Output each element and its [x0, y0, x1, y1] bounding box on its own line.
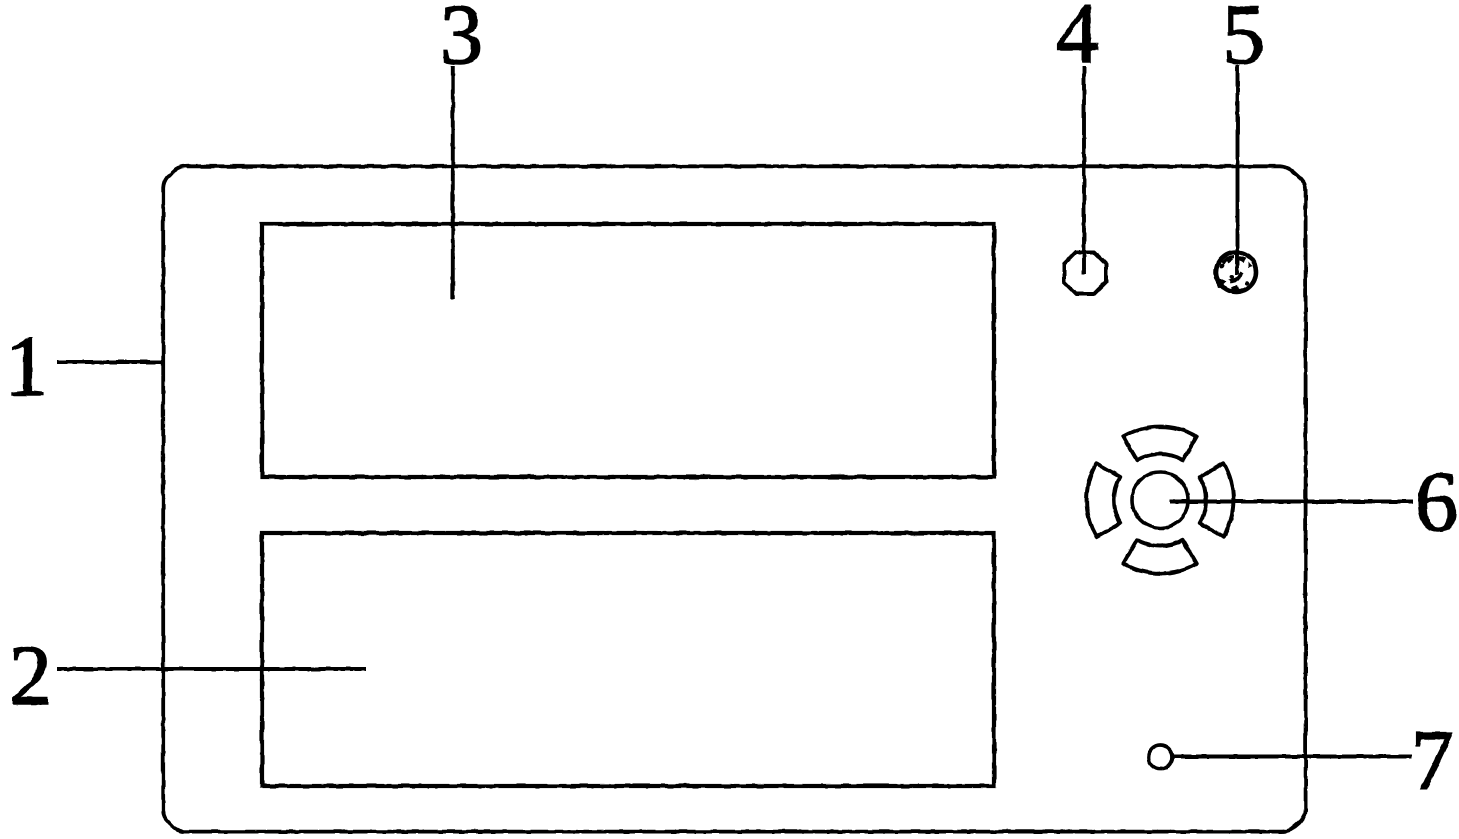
d-pad keys	[1087, 427, 1234, 574]
d-pad (6): center button	[1132, 472, 1188, 528]
button 4: octagon power button	[1064, 252, 1106, 294]
leader line 6	[1170, 500, 1413, 504]
device body (1)	[163, 166, 1305, 832]
svg-text:7: 7	[1411, 712, 1454, 808]
leader line 7	[1172, 755, 1412, 759]
svg-text:1: 1	[5, 318, 48, 414]
svg-text:2: 2	[9, 627, 52, 723]
button 7: small round button	[1149, 745, 1173, 769]
screen lower (2)	[262, 533, 994, 786]
leader line 4	[1082, 66, 1086, 274]
svg-text:3: 3	[440, 0, 483, 82]
screen upper (3)	[262, 224, 994, 477]
button 5: textured round button	[1216, 252, 1256, 292]
svg-text:4: 4	[1056, 0, 1099, 81]
leader line 2	[57, 667, 366, 671]
leader line 5	[1236, 65, 1240, 275]
svg-text:5: 5	[1222, 0, 1265, 82]
leader line 1	[57, 360, 163, 364]
svg-text:6: 6	[1415, 453, 1458, 549]
leader line 3	[451, 66, 455, 299]
